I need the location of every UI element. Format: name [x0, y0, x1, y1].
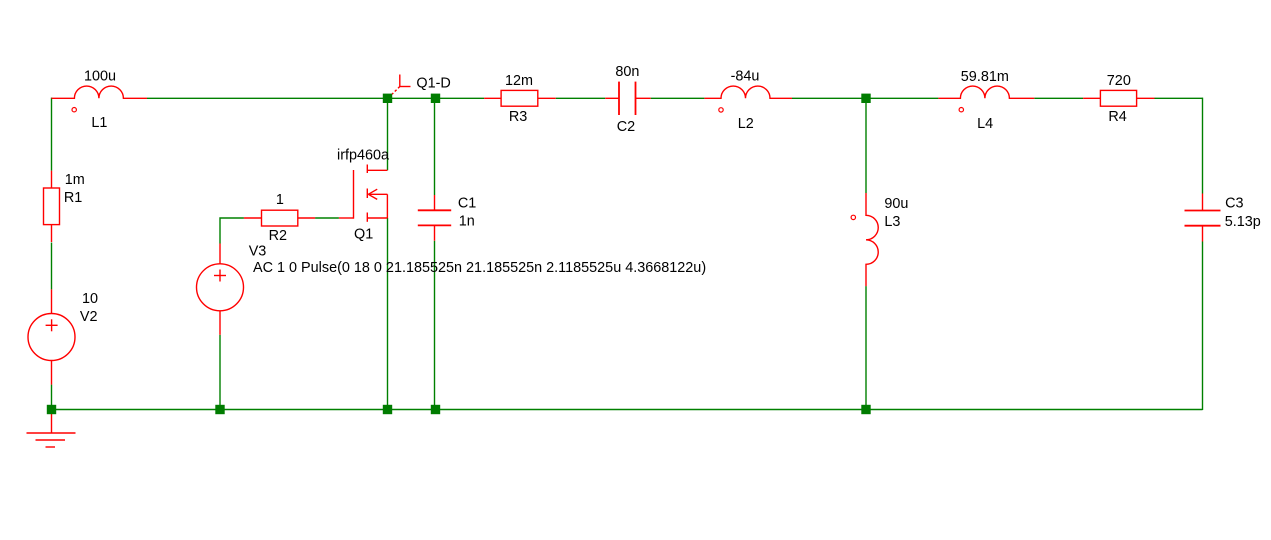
wire R2 to gate: [315, 217, 339, 219]
node V3 bottom junction: [215, 405, 224, 414]
svg-text:L4: L4: [977, 116, 993, 132]
inductor L1: [52, 86, 148, 112]
wire right corner down to C3: [1202, 98, 1204, 194]
svg-text:720: 720: [1107, 73, 1131, 89]
svg-text:R2: R2: [269, 228, 287, 244]
node L3 top junction: [861, 94, 870, 103]
wire V3 bottom: [334, 404, 336, 406]
svg-text:5.13p: 5.13p: [1225, 214, 1261, 230]
svg-text:C1: C1: [458, 195, 476, 211]
node Q1 source bottom junction: [383, 405, 392, 414]
resistor R1: [44, 171, 60, 242]
svg-text:-84u: -84u: [731, 69, 760, 85]
inductor L2: [704, 86, 792, 112]
wire C3 bottom: [1202, 242, 1204, 411]
svg-text:C2: C2: [617, 119, 635, 135]
svg-text:12m: 12m: [505, 73, 533, 89]
svg-text:V2: V2: [80, 309, 98, 325]
wire L3 bottom: [865, 286, 867, 405]
svg-text:1m: 1m: [65, 172, 85, 188]
ground: [27, 414, 76, 447]
node C1 bottom junction: [431, 405, 440, 414]
node ground junction: [47, 405, 56, 414]
svg-text:80n: 80n: [615, 64, 639, 80]
wire R1 to V2: [51, 243, 53, 290]
svg-text:1n: 1n: [459, 214, 475, 230]
svg-text:R3: R3: [509, 109, 527, 125]
svg-text:90u: 90u: [884, 196, 908, 212]
resistor R3: [484, 90, 556, 106]
wire R4 to top-right corner: [1155, 97, 1203, 99]
svg-text:Q1: Q1: [354, 227, 373, 243]
wire bottom rail: [52, 409, 1203, 411]
svg-text:1: 1: [276, 192, 284, 208]
node C1 top junction: [431, 94, 440, 103]
svg-text:V3: V3: [249, 244, 267, 260]
wire C1 top: [434, 103, 436, 195]
net label flag Q1-D: [392, 75, 411, 95]
capacitor C2: [605, 82, 651, 115]
wire node to node: [392, 97, 431, 99]
svg-text:10: 10: [82, 291, 98, 307]
wire R3 to C2: [556, 97, 606, 99]
wire Q1 source down to rail: [387, 218, 389, 405]
svg-text:R4: R4: [1108, 109, 1126, 125]
wire top-left vertical: [51, 98, 53, 171]
voltage source V3: [197, 244, 244, 335]
capacitor C3: [1185, 194, 1221, 242]
node L3 bottom junction: [861, 405, 870, 414]
node Q1 drain junction: [383, 94, 392, 103]
inductor L3: [851, 193, 878, 286]
svg-text:R1: R1: [64, 190, 82, 206]
resistor R2: [244, 210, 315, 226]
wire C2 to L2: [651, 97, 705, 99]
svg-text:59.81m: 59.81m: [961, 69, 1009, 85]
resistor R4: [1083, 90, 1154, 106]
svg-text:L1: L1: [91, 115, 107, 131]
wire L4 to R4: [1034, 97, 1083, 99]
wire top horizontal L1 to node: [147, 97, 383, 99]
voltage source V2: [28, 289, 75, 384]
svg-text:irfp460a: irfp460a: [337, 148, 390, 164]
svg-text:AC 1 0 Pulse(0 18 0 21.185525n: AC 1 0 Pulse(0 18 0 21.185525n 21.185525…: [253, 260, 706, 276]
transistor Q1: [339, 165, 388, 222]
svg-text:Q1-D: Q1-D: [416, 75, 450, 91]
wire Q1 drain up to node: [387, 103, 389, 170]
svg-text:100u: 100u: [84, 68, 116, 84]
svg-text:L3: L3: [884, 214, 900, 230]
wire C1 bottom: [434, 241, 436, 405]
svg-text:C3: C3: [1225, 195, 1243, 211]
wire V2 to ground node: [51, 385, 53, 405]
inductor L4: [938, 86, 1034, 112]
wire V3 top corner: [220, 218, 244, 244]
wire L3 top: [865, 103, 867, 193]
capacitor C1: [418, 195, 451, 241]
wire L2 to L4 through node: [792, 97, 938, 99]
svg-text:L2: L2: [738, 116, 754, 132]
wire node to R3: [440, 97, 484, 99]
